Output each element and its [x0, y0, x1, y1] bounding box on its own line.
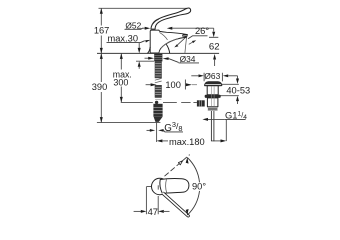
dimension Ø34 arrows and label: [145, 57, 150, 59]
faucet body circle (top view): [152, 178, 168, 194]
svg-text:300: 300: [113, 77, 128, 87]
dimension 47: [146, 187, 158, 215]
dimension 40-53: [237, 76, 239, 79]
hose end fitting block G3/8: [153, 104, 162, 117]
dimension max.30 (deck thickness): [138, 43, 140, 48]
svg-text:26°: 26°: [195, 26, 209, 36]
lever rod (top view): [162, 192, 190, 217]
label G3/8 with arrows: [147, 129, 152, 131]
hose break marks: [155, 78, 162, 82]
svg-text:390: 390: [92, 82, 108, 92]
90° arc: [187, 158, 199, 183]
drain left outlet stub: [197, 100, 205, 106]
dimension max.180: [157, 139, 163, 142]
dimension Ø52 arrows at cap: [145, 27, 151, 30]
spout root inner curve: [160, 32, 168, 40]
pop-up waste drain body: [205, 82, 222, 86]
deck underside line: [136, 60, 154, 62]
svg-text:47: 47: [148, 207, 158, 217]
390 bottom reference line: [97, 122, 160, 124]
deck line: [97, 52, 219, 54]
line from G1 1/4 down to max.180: [225, 119, 227, 141]
faucet body and spout (side view): [150, 30, 187, 53]
svg-text:Ø63: Ø63: [204, 71, 220, 81]
lever paddle (top view): [160, 179, 189, 194]
svg-text:62: 62: [209, 41, 220, 52]
26° angle indicator lines: [177, 36, 187, 46]
supply hose lower section: [155, 85, 162, 98]
dimension 62 vertical: [213, 28, 215, 31]
open arrowhead on dashed line: [178, 161, 182, 165]
dimension 100: [146, 84, 151, 86]
svg-text:100: 100: [165, 80, 181, 90]
top reference line (lever top level): [99, 7, 188, 9]
dimension max.300 vertical line: [120, 53, 122, 102]
faucet base escutcheon: [147, 47, 150, 54]
svg-text:max.180: max.180: [169, 137, 205, 147]
lever pivot axis mark: [157, 185, 159, 189]
svg-text:40-53: 40-53: [226, 86, 250, 96]
drain: Ø63 dimension: [191, 75, 198, 77]
svg-text:90°: 90°: [192, 181, 206, 191]
hose connector at pop-up rod: [155, 98, 161, 100]
svg-text:max.30: max.30: [108, 33, 139, 43]
drain tailpipe: [211, 111, 214, 141]
svg-text:Ø34: Ø34: [180, 54, 196, 64]
arc arrowheads: [186, 157, 189, 163]
dimension 167/390 vertical line: [100, 8, 102, 122]
dashed rotated lever position: [165, 155, 190, 177]
shank through deck (hatched dark): [154, 54, 162, 62]
hose thread stub line: [156, 122, 158, 142]
drain threaded section: [208, 107, 218, 111]
aerator at spout tip: [182, 34, 187, 37]
rod pivot ball: [155, 101, 158, 104]
pop-up rod horizontal linkage: [121, 101, 197, 103]
lever (side view): [151, 8, 191, 29]
supply hose upper section: [155, 61, 162, 78]
